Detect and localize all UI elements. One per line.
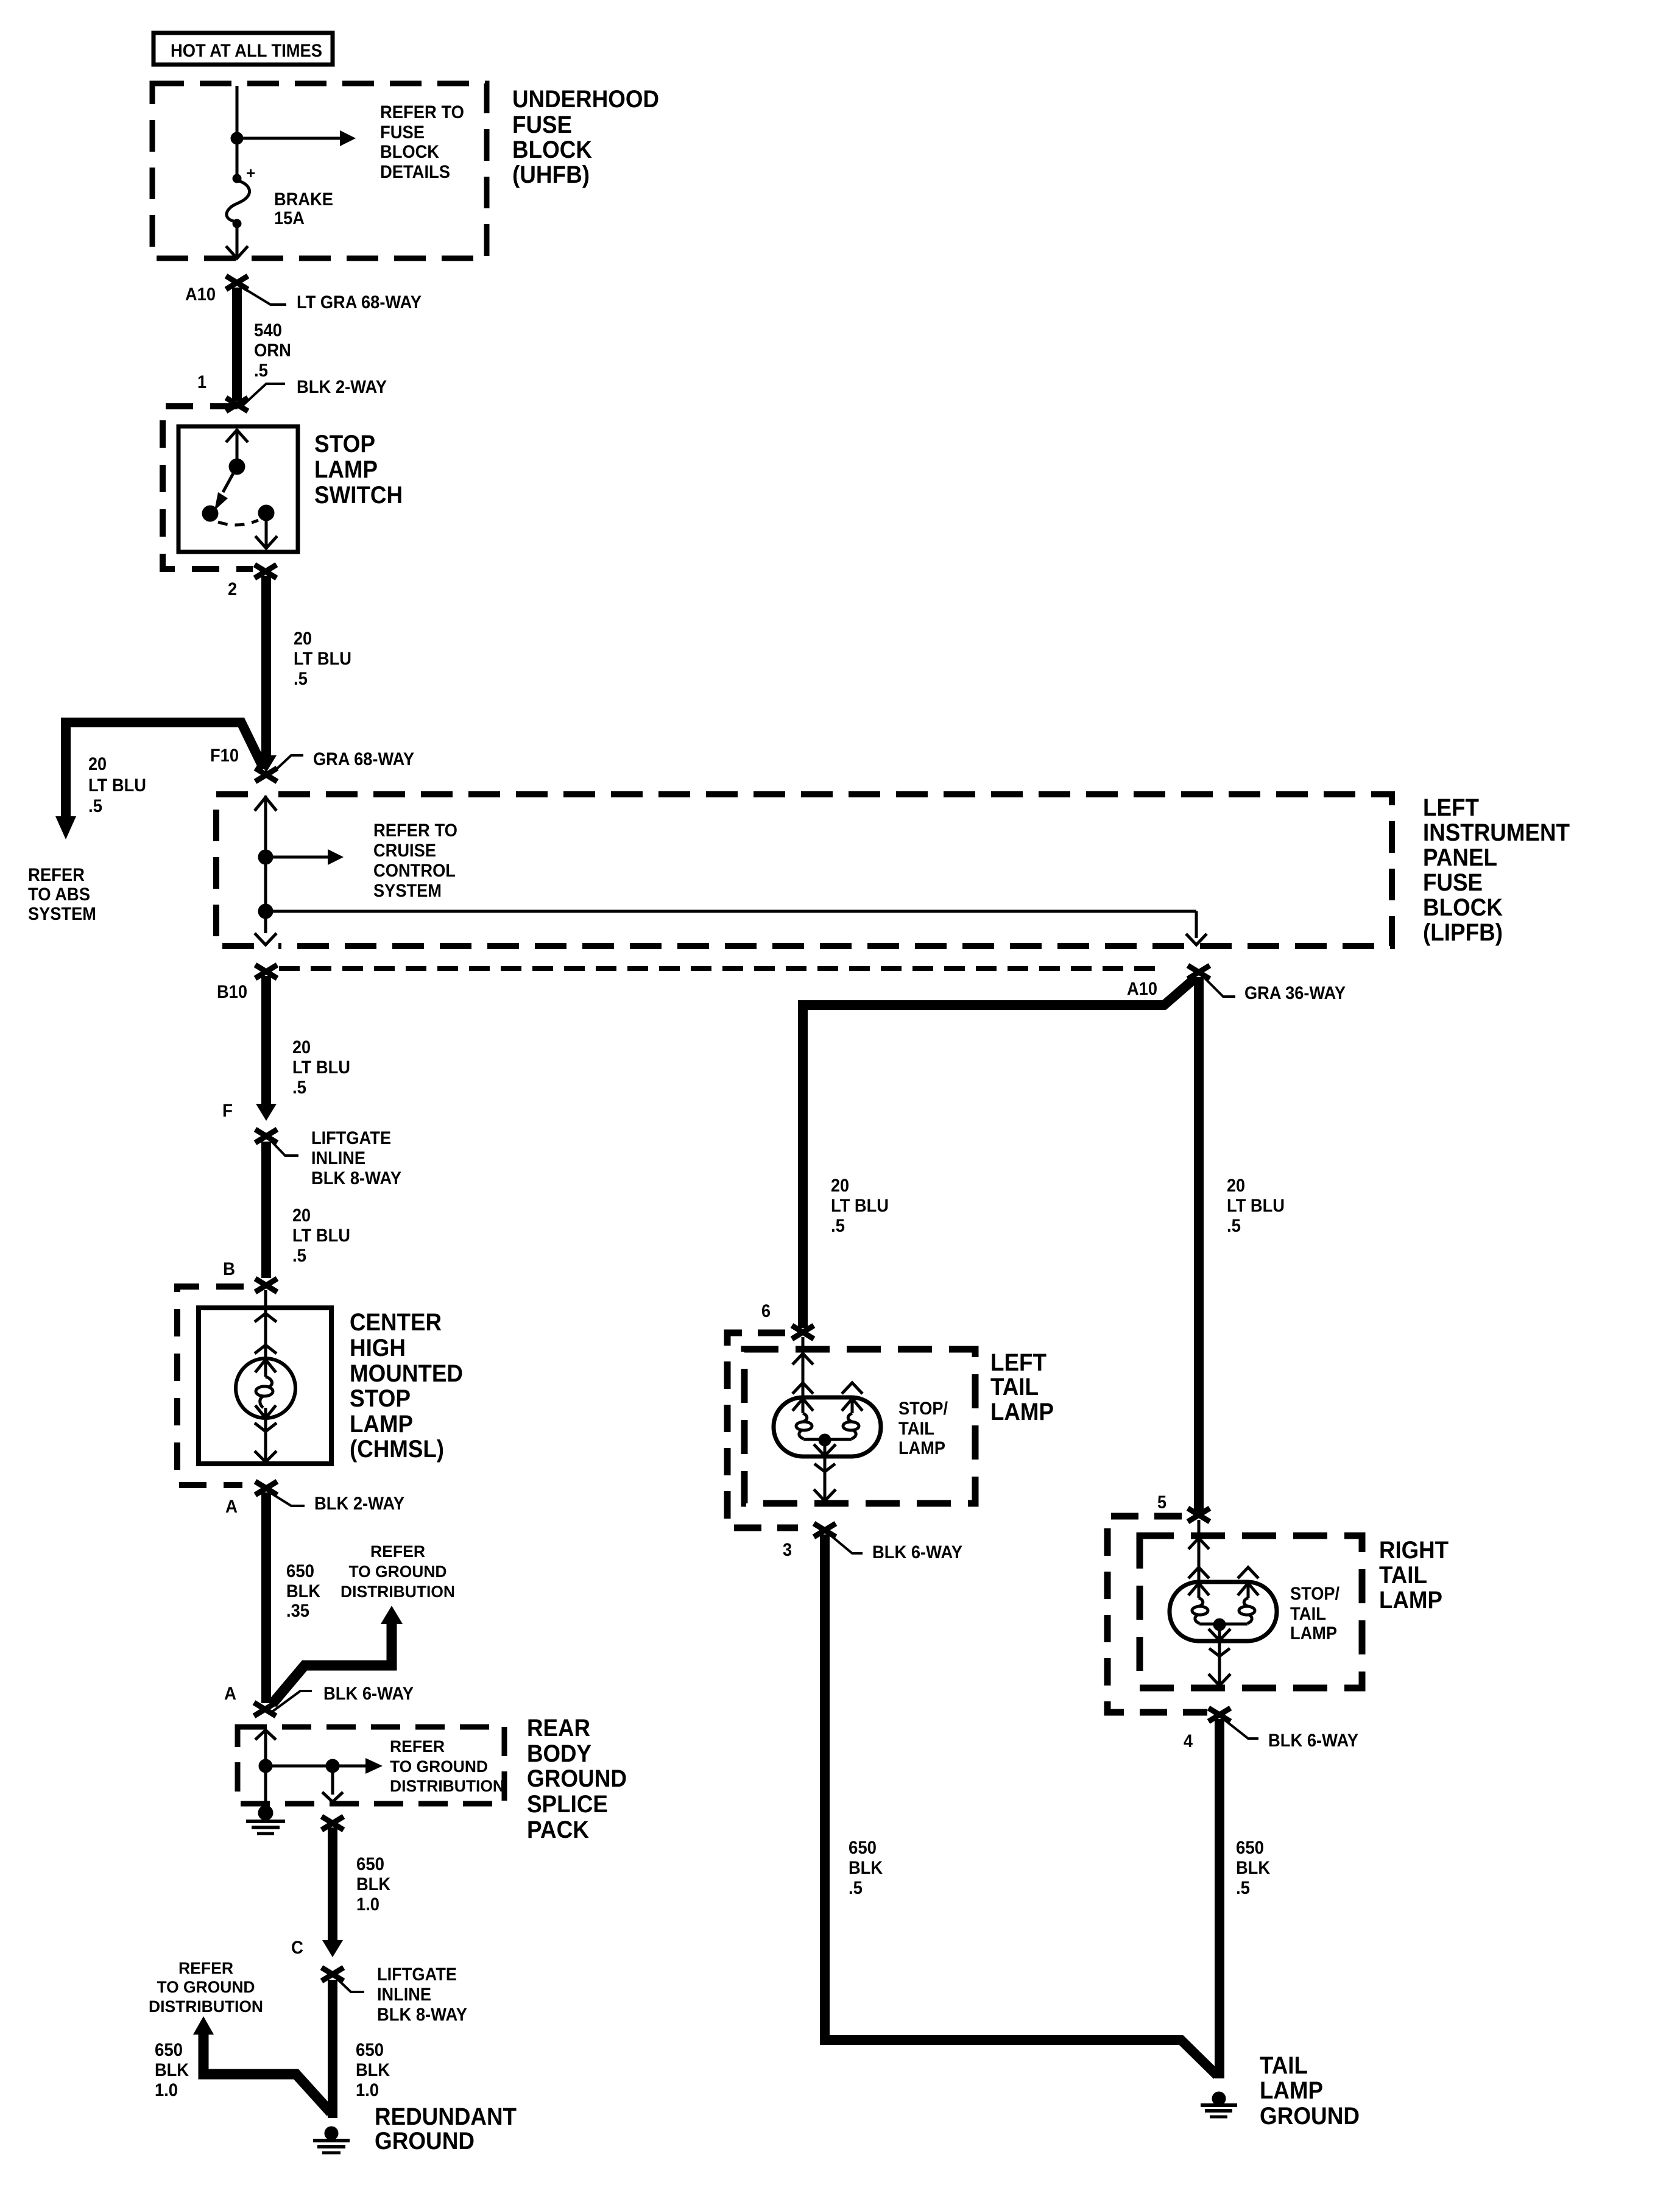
svg-text:F10: F10: [210, 746, 239, 766]
fuse BRAKE 15A: [233, 174, 241, 183]
svg-text:LAMP: LAMP: [314, 456, 378, 483]
svg-text:BLK 2-WAY: BLK 2-WAY: [314, 1494, 404, 1514]
right lamp common node dot: [1213, 1619, 1226, 1631]
right lamp stop filament: [1188, 1583, 1209, 1595]
leader and label GRA 36-WAY: [1205, 978, 1235, 997]
arrow to cruise control: [266, 856, 328, 859]
leader and label LT GRA 68-WAY: [242, 288, 286, 305]
svg-text:.5: .5: [1236, 1878, 1250, 1898]
svg-text:BLK 6-WAY: BLK 6-WAY: [1268, 1731, 1358, 1751]
splice entry lead with arrow: [264, 1730, 267, 1760]
svg-text:REFER: REFER: [178, 1959, 233, 1977]
branch arrow to ground distribution (left): [203, 2035, 331, 2113]
svg-text:5: 5: [1157, 1492, 1166, 1513]
connector A10 (UHFB, LT GRA 68-WAY): [226, 276, 248, 289]
svg-text:BLOCK: BLOCK: [512, 136, 592, 163]
svg-text:LT BLU: LT BLU: [88, 775, 146, 796]
wire 650 BLK .5 (right lamp to ground): [1215, 1719, 1224, 2078]
svg-text:FUSE: FUSE: [1423, 869, 1483, 896]
connector A10 (GRA 36-WAY): [1188, 966, 1210, 979]
svg-text:GRA 36-WAY: GRA 36-WAY: [1244, 983, 1346, 1003]
svg-text:2: 2: [228, 579, 237, 599]
wire 20 LT BLU .5 (to left tail lamp): [803, 977, 1196, 1328]
svg-text:DISTRIBUTION: DISTRIBUTION: [390, 1777, 504, 1795]
svg-text:PACK: PACK: [527, 1816, 589, 1843]
LIPFB connector face dashed line: [279, 966, 1160, 971]
svg-text:GRA 68-WAY: GRA 68-WAY: [313, 749, 414, 769]
svg-text:BLK 6-WAY: BLK 6-WAY: [323, 1684, 414, 1704]
right lamp common bus: [1199, 1623, 1248, 1626]
svg-text:.5: .5: [88, 796, 102, 816]
svg-text:REFER: REFER: [390, 1737, 445, 1756]
LIPFB node dot (to A10): [258, 904, 273, 919]
wire fuse to UHFB exit with arrow: [236, 227, 239, 256]
switch arm arrow: [223, 467, 237, 492]
leader and label BLK 6-WAY: [830, 1535, 863, 1553]
svg-text:REDUNDANT: REDUNDANT: [375, 2103, 517, 2130]
stop lamp switch body: [178, 426, 298, 552]
svg-text:INLINE: INLINE: [377, 1985, 431, 2005]
switch contact dot (output side): [258, 505, 274, 521]
left lamp common node dot: [819, 1434, 831, 1446]
wire 540 ORN .5: [232, 288, 242, 401]
rear body ground splice pack dashed box: [238, 1727, 504, 1804]
svg-text:3: 3: [783, 1540, 792, 1560]
svg-text:650: 650: [356, 1854, 384, 1874]
switch pin 2 lead with arrow: [265, 513, 268, 547]
CHMSL bulb filament: [255, 1360, 276, 1372]
svg-text:SYSTEM: SYSTEM: [373, 881, 442, 901]
svg-text:20: 20: [292, 1037, 311, 1057]
connector pin 2: [255, 565, 277, 578]
switch common contact dot: [229, 459, 245, 475]
svg-text:BRAKE: BRAKE: [274, 189, 333, 210]
wire 650 BLK 1.0 (splice to C): [328, 1827, 337, 1940]
svg-text:TAIL: TAIL: [1260, 2052, 1308, 2079]
svg-text:DETAILS: DETAILS: [380, 162, 450, 182]
connector pin 3 (BLK 6-WAY): [814, 1523, 836, 1537]
svg-text:BLK: BLK: [356, 2060, 390, 2080]
svg-text:20: 20: [88, 754, 107, 774]
wire 20 LT BLU .5 (to right tail lamp): [1194, 977, 1204, 1512]
svg-text:BLK 8-WAY: BLK 8-WAY: [377, 2005, 467, 2025]
svg-text:UNDERHOOD: UNDERHOOD: [512, 86, 659, 113]
svg-text:REFER: REFER: [370, 1542, 425, 1561]
svg-text:6: 6: [761, 1301, 771, 1321]
svg-text:LT BLU: LT BLU: [831, 1196, 889, 1216]
svg-text:.5: .5: [1227, 1216, 1241, 1236]
svg-text:B: B: [223, 1259, 235, 1279]
svg-text:SYSTEM: SYSTEM: [28, 904, 96, 924]
splice node dot 1: [259, 1759, 272, 1773]
svg-text:.5: .5: [292, 1246, 306, 1266]
wire feed inside UHFB: [236, 86, 239, 134]
svg-text:HOT AT ALL TIMES: HOT AT ALL TIMES: [171, 41, 322, 61]
svg-text:BLK: BLK: [1236, 1858, 1270, 1878]
leader and label BLK 6-WAY: [1225, 1720, 1258, 1739]
left lamp entry lead with chevrons: [802, 1337, 805, 1398]
connector pin 6: [792, 1326, 814, 1339]
svg-text:(LIPFB): (LIPFB): [1423, 919, 1503, 946]
svg-text:LAMP: LAMP: [1260, 2077, 1323, 2104]
svg-text:LAMP: LAMP: [990, 1399, 1054, 1425]
svg-text:DISTRIBUTION: DISTRIBUTION: [341, 1583, 455, 1601]
svg-text:SWITCH: SWITCH: [314, 482, 403, 509]
left lamp bulb stadium: [774, 1397, 881, 1456]
svg-text:BLK 2-WAY: BLK 2-WAY: [297, 377, 387, 397]
arrow to fuse block details: [243, 137, 340, 140]
svg-text:CENTER: CENTER: [350, 1309, 442, 1336]
right lamp exit lead with arrows: [1218, 1625, 1221, 1639]
right lamp second terminal chevron: [1238, 1567, 1258, 1578]
svg-text:650: 650: [849, 1838, 877, 1858]
right tail lamp inner dashed box: [1140, 1536, 1362, 1688]
svg-text:TAIL: TAIL: [1290, 1604, 1326, 1624]
svg-text:.5: .5: [254, 361, 268, 381]
leader and label BLK 2-WAY: [272, 1494, 305, 1506]
svg-text:BLOCK: BLOCK: [1423, 894, 1503, 921]
right lamp entry lead with chevrons: [1198, 1520, 1201, 1583]
svg-text:TO GROUND: TO GROUND: [157, 1978, 255, 1996]
svg-text:FUSE: FUSE: [512, 111, 572, 138]
splice bus wire: [266, 1765, 333, 1768]
svg-text:LEFT: LEFT: [1423, 794, 1479, 821]
svg-text:TAIL: TAIL: [990, 1374, 1039, 1400]
svg-text:A10: A10: [185, 284, 216, 305]
branch wire to ABS system: [66, 722, 264, 816]
connector B10: [255, 965, 277, 978]
svg-text:.35: .35: [286, 1601, 309, 1621]
svg-text:650: 650: [356, 2040, 384, 2060]
svg-text:LAMP: LAMP: [350, 1411, 413, 1438]
ground (splice pack): [258, 1806, 273, 1820]
connector below splice pack: [322, 1816, 344, 1830]
svg-text:A: A: [224, 1684, 236, 1704]
left tail lamp outer dashed box: [727, 1333, 798, 1528]
svg-text:1.0: 1.0: [155, 2080, 178, 2100]
svg-text:LAMP: LAMP: [1290, 1623, 1337, 1643]
svg-text:F: F: [222, 1101, 233, 1121]
inline connector (liftgate 8-way lower): [322, 1968, 344, 1981]
left instrument panel fuse block LIPFB dashed box: [216, 794, 1392, 946]
svg-text:TO ABS: TO ABS: [28, 884, 90, 905]
connector F10 (GRA 68-WAY): [255, 768, 277, 782]
splice lead down from dot 2: [331, 1766, 334, 1795]
svg-text:GROUND: GROUND: [527, 1765, 627, 1792]
svg-text:LAMP: LAMP: [1379, 1587, 1442, 1614]
svg-text:20: 20: [292, 1206, 311, 1226]
switch contact dot (closed side): [202, 506, 218, 521]
svg-text:GROUND: GROUND: [375, 2128, 475, 2155]
right tail lamp outer dashed box: [1107, 1516, 1207, 1712]
svg-text:20: 20: [294, 629, 312, 649]
svg-text:REFER TO: REFER TO: [380, 102, 464, 122]
svg-text:TO GROUND: TO GROUND: [349, 1562, 447, 1581]
svg-text:20: 20: [831, 1176, 849, 1196]
svg-text:(CHMSL): (CHMSL): [350, 1436, 444, 1463]
switch pin 1 lead with arrow: [236, 429, 239, 463]
svg-text:LEFT: LEFT: [990, 1349, 1046, 1376]
svg-text:.5: .5: [831, 1216, 845, 1236]
power label HOT AT ALL TIMES: [154, 33, 333, 65]
svg-text:20: 20: [1227, 1176, 1245, 1196]
svg-text:A: A: [225, 1497, 238, 1517]
CHMSL bulb circle: [236, 1358, 295, 1418]
svg-text:1.0: 1.0: [356, 2080, 379, 2100]
leader and label BLK 6-WAY: [270, 1691, 312, 1713]
svg-text:15A: 15A: [274, 208, 305, 228]
inline connector (liftgate 8-way): [255, 1129, 277, 1143]
svg-text:REFER: REFER: [28, 865, 85, 885]
svg-text:FUSE: FUSE: [380, 122, 425, 143]
svg-text:A10: A10: [1127, 979, 1157, 999]
arrow to ground distribution: [333, 1765, 365, 1768]
svg-text:4: 4: [1184, 1731, 1193, 1751]
svg-text:MOUNTED: MOUNTED: [350, 1360, 463, 1387]
svg-text:(UHFB): (UHFB): [512, 161, 590, 188]
LIPFB internal wire: [264, 857, 267, 911]
right lamp tail filament: [1238, 1583, 1258, 1595]
svg-text:LT BLU: LT BLU: [1227, 1196, 1285, 1216]
svg-text:ORN: ORN: [254, 341, 291, 361]
svg-text:650: 650: [155, 2040, 183, 2060]
left lamp second terminal chevron: [842, 1383, 863, 1394]
wire 650 BLK .35: [261, 1492, 271, 1703]
svg-text:STOP/: STOP/: [1290, 1584, 1340, 1604]
switch dashed travel arc: [218, 520, 258, 525]
connector B (CHMSL): [255, 1279, 277, 1292]
svg-text:HIGH: HIGH: [350, 1335, 406, 1361]
wire 650 BLK .5 (left lamp to ground): [825, 1534, 1217, 2075]
svg-text:540: 540: [254, 320, 282, 341]
svg-text:1.0: 1.0: [356, 1894, 379, 1915]
svg-text:LT GRA 68-WAY: LT GRA 68-WAY: [297, 292, 422, 312]
stop lamp switch outer dashed box: [163, 406, 253, 569]
wire 20 LT BLU .5 (F to B): [261, 1142, 271, 1278]
svg-text:650: 650: [1236, 1838, 1264, 1858]
svg-text:DISTRIBUTION: DISTRIBUTION: [149, 1997, 263, 2016]
svg-text:LIFTGATE: LIFTGATE: [311, 1128, 391, 1148]
leader and label LIFTGATE INLINE BLK 8-WAY: [272, 1142, 298, 1156]
svg-text:+: +: [246, 164, 255, 182]
svg-text:TAIL: TAIL: [898, 1419, 934, 1439]
underhood fuse block UHFB dashed box: [152, 83, 487, 258]
leader and label GRA 68-WAY: [272, 755, 303, 774]
CHMSL outer dashed box: [177, 1287, 244, 1485]
svg-text:B10: B10: [217, 982, 247, 1002]
svg-text:BLK: BLK: [155, 2060, 189, 2080]
junction node dot: [231, 132, 243, 144]
connector pin 4 (BLK 6-WAY): [1209, 1708, 1230, 1721]
connector A (splice pack, BLK 6-WAY): [254, 1703, 276, 1716]
LIPFB node dot (to cruise): [258, 850, 273, 864]
left lamp tail filament: [842, 1399, 863, 1411]
svg-text:STOP: STOP: [350, 1385, 411, 1412]
CHMSL body box: [199, 1308, 331, 1464]
svg-text:LT BLU: LT BLU: [292, 1057, 350, 1078]
svg-text:RIGHT: RIGHT: [1379, 1537, 1449, 1564]
svg-text:SPLICE: SPLICE: [527, 1791, 608, 1818]
left lamp exit lead with arrows: [824, 1440, 827, 1455]
svg-text:LIFTGATE: LIFTGATE: [377, 1965, 457, 1985]
connector pin 1 (BLK 2-WAY): [226, 398, 248, 411]
connector pin 5: [1188, 1508, 1210, 1522]
redundant ground: [325, 2127, 338, 2140]
wire 20 LT BLU .5 (B10 to F): [261, 976, 271, 1104]
svg-text:BODY: BODY: [527, 1740, 591, 1767]
wire junction to fuse: [236, 138, 239, 175]
leader and label LIFTGATE INLINE BLK 8-WAY: [338, 1980, 364, 1992]
branch arrow to ground distribution: [272, 1624, 392, 1704]
svg-text:STOP: STOP: [314, 431, 375, 457]
wire 650 BLK 1.0 (to redundant ground): [328, 1980, 337, 2118]
LIPFB exit lead with arrow (B10): [264, 911, 267, 933]
internal wire to A10 side: [266, 910, 1196, 913]
tail lamp ground: [1212, 2092, 1226, 2105]
svg-text:INLINE: INLINE: [311, 1148, 365, 1168]
svg-text:CONTROL: CONTROL: [373, 861, 456, 881]
right lamp bulb stadium: [1170, 1582, 1277, 1641]
splice lead down from dot 1: [264, 1766, 267, 1806]
svg-text:PANEL: PANEL: [1423, 844, 1497, 871]
svg-text:STOP/: STOP/: [898, 1399, 948, 1419]
left tail lamp inner dashed box: [744, 1349, 975, 1503]
svg-text:BLK: BLK: [849, 1858, 883, 1878]
svg-text:1: 1: [197, 372, 206, 392]
svg-text:.5: .5: [294, 669, 308, 689]
svg-text:C: C: [291, 1938, 303, 1958]
svg-text:BLOCK: BLOCK: [380, 142, 439, 162]
svg-text:BLK: BLK: [356, 1874, 390, 1894]
svg-text:LT BLU: LT BLU: [294, 649, 351, 669]
leader and label BLK 2-WAY: [242, 384, 285, 406]
svg-text:LAMP: LAMP: [898, 1438, 945, 1458]
svg-text:GROUND: GROUND: [1260, 2103, 1360, 2130]
svg-text:CRUISE: CRUISE: [373, 841, 436, 861]
svg-text:650: 650: [286, 1561, 314, 1581]
svg-text:INSTRUMENT: INSTRUMENT: [1423, 819, 1570, 846]
svg-text:TAIL: TAIL: [1379, 1562, 1427, 1589]
left lamp common bus: [803, 1438, 852, 1441]
LIPFB entry lead with arrow: [264, 796, 267, 850]
svg-text:TO GROUND: TO GROUND: [390, 1757, 488, 1776]
left lamp stop filament: [792, 1399, 813, 1411]
wire 20 LT BLU .5 (switch to F10): [261, 576, 271, 755]
svg-text:REFER TO: REFER TO: [373, 821, 457, 841]
svg-text:.5: .5: [849, 1878, 863, 1898]
splice node dot 2: [326, 1759, 339, 1773]
svg-text:LT BLU: LT BLU: [292, 1226, 350, 1246]
svg-text:BLK 6-WAY: BLK 6-WAY: [872, 1542, 962, 1562]
connector A (CHMSL, BLK 2-WAY): [255, 1481, 277, 1495]
svg-text:.5: .5: [292, 1078, 306, 1098]
svg-text:REAR: REAR: [527, 1715, 590, 1742]
svg-text:BLK: BLK: [286, 1581, 320, 1601]
svg-text:BLK 8-WAY: BLK 8-WAY: [311, 1168, 401, 1188]
CHMSL entry lead with chevrons: [264, 1290, 267, 1358]
CHMSL exit lead with chevrons: [255, 1423, 277, 1432]
